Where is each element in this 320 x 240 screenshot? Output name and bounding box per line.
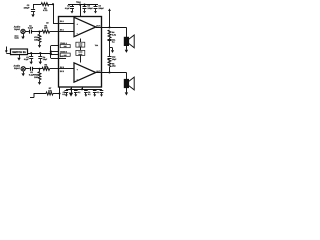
svg-text:IN A: IN A — [60, 20, 64, 23]
svg-text:10K: 10K — [34, 38, 38, 41]
svg-text:text): text) — [15, 37, 19, 40]
svg-text:0.1µF: 0.1µF — [24, 58, 30, 61]
svg-text:input: input — [14, 67, 20, 70]
svg-text:C9: C9 — [46, 22, 48, 25]
svg-text:0.1: 0.1 — [88, 93, 91, 96]
svg-text:10K: 10K — [34, 76, 38, 79]
svg-text:4.7Ω: 4.7Ω — [43, 9, 48, 12]
svg-text:10Ω: 10Ω — [112, 65, 116, 68]
svg-text:0.1µF: 0.1µF — [65, 7, 71, 10]
svg-text:10K: 10K — [44, 66, 48, 69]
svg-text:100µF: 100µF — [98, 7, 104, 10]
svg-text:0.1: 0.1 — [62, 93, 65, 96]
svg-text:10K: 10K — [48, 89, 52, 92]
svg-text:0.1: 0.1 — [112, 41, 115, 44]
svg-text:100µF: 100µF — [24, 7, 30, 10]
svg-text:0.1: 0.1 — [78, 91, 81, 94]
svg-text:input: input — [14, 28, 20, 31]
svg-text:4.7Ω: 4.7Ω — [112, 33, 117, 36]
svg-text:IN B: IN B — [60, 66, 65, 69]
svg-text:0.1: 0.1 — [97, 91, 100, 94]
svg-text:IN B: IN B — [60, 70, 65, 73]
svg-text:SWITCH S1: SWITCH S1 — [12, 51, 26, 54]
svg-text:IN A: IN A — [60, 29, 64, 32]
svg-text:100µF: 100µF — [87, 7, 93, 10]
svg-text:10K: 10K — [44, 27, 48, 30]
svg-text:0.1µF: 0.1µF — [28, 27, 34, 30]
